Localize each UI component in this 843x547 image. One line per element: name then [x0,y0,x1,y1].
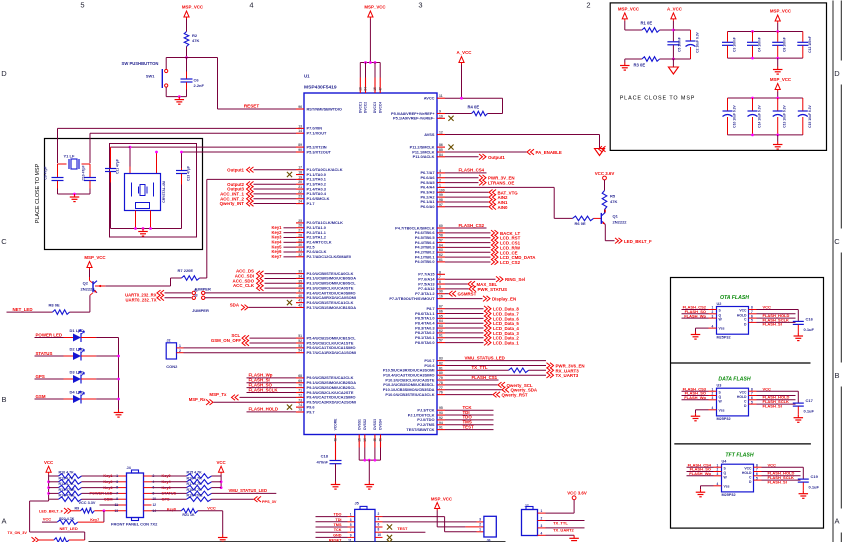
ground LEDs [118,410,120,413]
svg-text:1: 1 [541,509,543,513]
svg-text:DVCC2: DVCC2 [364,102,368,113]
svg-text:J5: J5 [355,502,359,506]
svg-text:R14 470E: R14 470E [59,494,76,498]
junction switch-cap-ground [178,95,181,98]
svg-text:4: 4 [712,324,714,328]
resistor R2 [184,32,189,47]
svg-text:C14 10uF 6.3V: C14 10uF 6.3V [758,105,762,128]
svg-text:R3 0E: R3 0E [634,62,646,67]
wire R2 to junction [186,47,188,58]
svg-text:45: 45 [373,438,377,442]
pin 65 P8.5/TA1.0 [437,317,445,319]
pin 81 P10.5/UCA3RXD/UCA3SOMI [437,369,445,371]
svg-text:47: 47 [378,87,382,91]
svg-text:70: 70 [298,384,302,388]
net GSMRST [445,293,449,295]
svg-text:52: 52 [298,339,302,343]
off-page arrow near box corner [599,146,606,152]
svg-text:LED_BKLT_F: LED_BKLT_F [39,510,64,514]
net Key0 R21 row [144,510,152,512]
power MSP_VCC decoupling left [622,13,627,19]
resistor R18 front panel [187,491,212,496]
svg-text:86: 86 [439,143,443,147]
pin 6 P7.5/A13 [437,283,445,285]
svg-text:MSP_VCC: MSP_VCC [770,77,792,82]
resistor R22 [57,520,78,525]
wire DVCC bus [360,62,380,64]
svg-text:28: 28 [298,233,302,237]
svg-text:72: 72 [298,393,302,397]
pin 54 P5.7/UCA1RXD/UCA1SOMI [296,352,304,354]
svg-text:2: 2 [586,1,590,10]
svg-text:97: 97 [439,203,443,207]
pin VCORE [335,435,337,461]
net Qwerty_RST [445,394,493,396]
svg-text:Key7: Key7 [271,254,282,259]
pin Vss U4 [714,485,722,487]
wire cap row 1 bottom rail [728,57,803,59]
pin 10 J5 [375,536,383,538]
wire pin1 to Q1 base [445,186,554,188]
svg-text:C8 100nF: C8 100nF [783,37,787,52]
svg-text:LCD_Data_1: LCD_Data_1 [493,341,519,346]
svg-text:R16 4.7K: R16 4.7K [187,476,203,480]
ground J7 [573,535,575,538]
net FLASH_SI U2 [749,321,757,323]
pin 74 P9.6 [296,406,304,408]
no-connect pin 10 [448,116,453,121]
svg-text:NET_LED: NET_LED [13,307,33,312]
svg-text:R10 4.7K: R10 4.7K [59,471,75,475]
net FLASH_HOLD U2 [749,313,757,315]
svg-text:R15 4.7K: R15 4.7K [187,471,203,475]
pin 11 AVCC [437,97,445,99]
pin 67 P8.7 [437,308,445,310]
svg-text:Qwerty_RST: Qwerty_RST [502,393,528,398]
net PPS_3V [212,498,254,500]
net LCD_Data_8 [445,308,484,310]
pin DVCC2 [365,63,367,78]
svg-text:6: 6 [439,280,441,284]
power VCC 3.6V Q1 [603,176,607,180]
svg-text:1: 1 [116,474,118,478]
net AVCC wire [445,97,503,99]
net Key4 front panel right [144,481,152,483]
svg-text:61: 61 [439,334,443,338]
pin 59 P4.6/TB0.6 [437,232,445,234]
power A_VCC decoupling [671,13,676,19]
pin Vss U3 [709,409,717,411]
no-connect J5 pin6 [387,524,392,529]
svg-text:4: 4 [717,482,719,486]
svg-text:P2.7/ADC12CLK/DMAE0: P2.7/ADC12CLK/DMAE0 [307,254,352,259]
capacitor C9 [57,164,59,177]
flash divider 1 [671,362,811,364]
analog ground A_VCC [672,59,674,67]
svg-text:57: 57 [439,339,443,343]
svg-text:73: 73 [298,398,302,402]
pin 57 P4.4/TB0.4 [437,242,445,244]
pin 8 J5 [375,531,383,533]
pin 63 P4.2/TB0.2 [437,251,445,253]
ground C18 [335,482,337,485]
svg-text:P5.3/XT2OUT: P5.3/XT2OUT [307,149,332,154]
svg-text:VCC: VCC [739,309,747,313]
pin Vss U2 [709,327,717,329]
svg-text:Q: Q [719,313,722,317]
svg-text:58: 58 [439,234,443,238]
svg-text:TFT FLASH: TFT FLASH [725,453,753,459]
svg-text:MSP_Tx: MSP_Tx [209,392,227,397]
svg-text:3: 3 [541,524,543,528]
svg-text:C: C [1,237,7,246]
svg-text:71: 71 [298,389,302,393]
wire J7 pin1 [538,512,546,514]
svg-text:30: 30 [298,243,302,247]
pin 97 P6.0/A0 [437,206,445,208]
svg-text:FLASH_SI: FLASH_SI [768,479,787,484]
svg-text:100: 100 [439,188,445,192]
flash block box [671,278,824,529]
svg-text:STATUS: STATUS [36,351,53,356]
wire XOUT [90,132,296,134]
wire RESET net [187,57,218,59]
xt2 inner box [110,144,197,238]
net LCD_Data_3 [445,332,484,334]
net AIN0 [445,206,489,208]
svg-text:2.2nF: 2.2nF [194,83,205,88]
pin 68 P9.0/UCB2STE/UCA2CLK [296,377,304,379]
svg-text:4: 4 [439,169,441,173]
pin 52 P5.5/UCB1CLK/UCA1STE [296,342,304,344]
svg-text:6: 6 [378,522,380,526]
pin 91 TEST/SBWTCK [437,429,445,431]
net PWR_3V6_EN [445,365,546,367]
svg-text:C10 10uF 6.3V: C10 10uF 6.3V [733,105,737,128]
svg-text:64: 64 [439,319,443,323]
svg-text:68: 68 [298,374,302,378]
svg-text:94: 94 [439,421,443,425]
svg-text:79: 79 [439,376,443,380]
svg-text:FLASH_CS1: FLASH_CS1 [472,375,498,380]
wire cap row 2 top rail [728,97,803,99]
pin DVCC3 [374,63,376,78]
svg-text:DVSS1: DVSS1 [357,419,361,430]
svg-text:SDA: SDA [230,302,240,307]
pin 17 P1.0/TA0CLK/ACLK [296,169,304,171]
svg-text:Q1: Q1 [613,214,619,219]
capacitor C3 100nF [727,32,729,42]
net TX_UART3 [445,374,546,376]
svg-text:R11 4.7K: R11 4.7K [59,476,74,480]
net RING_Sel [445,278,496,280]
wire NET_LED [7,311,53,313]
pin 18 P1.1/TA0.0 [296,174,304,176]
wire R8 to Q2 [70,311,90,313]
pin 27 P2.2/TA1.1 [296,232,304,234]
svg-text:MSP_VCC: MSP_VCC [431,496,453,501]
pin 16 P7.2/TB0OUTH/SVMOUT [437,298,445,300]
svg-text:NET_LED: NET_LED [60,526,78,531]
analog ground AVSS [595,149,605,156]
svg-text:85: 85 [439,148,443,152]
capacitor C5 [667,41,679,43]
svg-text:TX_UART3: TX_UART3 [556,373,579,378]
svg-text:B: B [1,395,6,404]
connector J6 [484,516,496,537]
wire xt2 ground bus [135,211,137,229]
svg-text:470nF: 470nF [316,459,328,464]
svg-text:TEST: TEST [397,526,408,531]
svg-text:R5: R5 [610,194,616,199]
pin DVCC1 [359,63,361,78]
resistor R10 front panel [49,475,59,477]
pin DVSS2 [364,435,366,448]
pin 4 P6.7/A7 [437,172,445,174]
svg-text:CON2: CON2 [166,364,178,369]
svg-text:1: 1 [439,183,441,187]
svg-text:JUMPER: JUMPER [194,287,211,292]
ground C19 [802,491,804,494]
svg-text:UART0_232_TX: UART0_232_TX [126,297,157,302]
svg-text:DATA FLASH: DATA FLASH [718,377,750,383]
svg-text:GND: GND [333,533,342,537]
wire switch bottom [165,87,167,97]
svg-text:9: 9 [350,533,352,537]
pin 75 P9.7 [296,411,304,413]
svg-text:TX_TTL: TX_TTL [553,520,568,525]
svg-text:18: 18 [359,87,363,91]
svg-text:11: 11 [348,539,352,542]
power MSP_VCC Q2 [87,262,92,268]
svg-text:9: 9 [439,110,441,114]
pin 32 P2.7/ADC12CLK/DMAE0 [296,256,304,258]
svg-text:R17 4.7K: R17 4.7K [187,482,203,486]
svg-text:1: 1 [179,344,181,348]
wire crystal caps ground [58,193,91,195]
svg-text:C5 100nF: C5 100nF [678,37,682,52]
power VCC front panel right [219,466,224,472]
net LCD_R/W [445,246,491,248]
resistor R4 [502,98,504,113]
svg-text:83: 83 [439,357,443,361]
svg-text:P8.0/TA0.0: P8.0/TA0.0 [415,340,434,345]
net BAT_VTG [445,191,489,193]
resistor R6 [573,216,594,221]
pin 12 AVSS [437,134,445,136]
svg-text:C17: C17 [806,398,814,403]
ground cap row 2 [777,142,779,145]
net PWR_STATUS [445,288,469,290]
pin 13 XIN [296,127,304,129]
resistor R11 front panel [49,481,59,483]
svg-text:MSP_VCC: MSP_VCC [618,7,640,12]
svg-text:VCC: VCC [216,460,226,465]
power MSP_VCC cap row 2 [775,84,780,90]
svg-text:C16: C16 [806,317,814,322]
svg-text:FLASH_Wp: FLASH_Wp [689,471,711,476]
svg-text:VMU_STATUS_LED: VMU_STATUS_LED [465,355,505,360]
svg-text:P3.7/UCB1SIMO/UCB1SDA: P3.7/UCB1SIMO/UCB1SDA [307,305,357,310]
svg-text:11: 11 [439,94,443,98]
svg-text:R8 0E: R8 0E [49,303,60,308]
svg-text:C2 10uF 6.3V: C2 10uF 6.3V [696,31,700,52]
pin 73 P9.5/UCA2RXD/UCA2SOMI [296,401,304,403]
net LCD_Data_5 [445,322,484,324]
svg-text:46: 46 [379,438,383,442]
wire XT2OUT [182,151,297,153]
ground DVSS [368,482,370,485]
svg-text:HOLD: HOLD [737,313,747,317]
net FLASH_HOLD U4 [754,471,762,473]
svg-text:Key7: Key7 [90,518,99,522]
svg-text:47K: 47K [610,199,617,204]
capacitor C12 100nF [802,32,804,42]
net LTRANS_OE [445,182,479,184]
svg-text:HOLD: HOLD [737,395,747,399]
pin 20 P1.3/TA0.2 [296,183,304,185]
svg-text:7: 7 [116,491,118,495]
pin 82 P10.6 [437,364,445,366]
svg-text:5: 5 [751,400,753,404]
svg-text:VCC 3.6V: VCC 3.6V [595,171,615,176]
svg-text:2: 2 [541,517,543,521]
svg-text:TDI: TDI [335,518,341,522]
svg-text:25: 25 [298,219,302,223]
svg-text:VCC: VCC [744,466,752,470]
resistor R12 front panel [49,487,59,489]
pin 25 P2.0/TA1CLK/MCLK [296,222,304,224]
pin 22 P1.5/TA0.4 [296,193,304,195]
pin DVCC4 [379,63,381,78]
net LCD_Data_6 [445,317,484,319]
no-connect J5 pin12 [387,539,392,544]
svg-text:Q: Q [719,395,722,399]
svg-text:Y1 LF: Y1 LF [64,154,75,159]
pin 77 P10.1/UCB3SIMO/UCB3SDA [437,389,445,391]
pin DVSS1 [358,435,360,448]
svg-text:16: 16 [363,438,367,442]
svg-text:92: 92 [439,416,443,420]
svg-text:0.1uF: 0.1uF [809,485,820,490]
svg-text:VCC: VCC [768,462,777,467]
svg-text:14: 14 [298,129,302,133]
net Qwerty_SCL [445,384,498,386]
pin 24 P1.7 [296,203,304,205]
pin 80 P10.4/UCA3TXD/UCA3SIMO [437,374,445,376]
svg-text:36: 36 [298,284,302,288]
svg-text:TDO: TDO [333,513,341,517]
svg-text:15: 15 [357,438,361,442]
svg-text:POWER LED: POWER LED [36,332,63,337]
svg-text:77: 77 [439,386,443,390]
net MAX_SEL [445,283,468,285]
svg-text:3: 3 [439,174,441,178]
capacitor C15 10uF [802,98,804,111]
pin 2 J5 [375,516,383,518]
net LCD_Data_7 [445,313,484,315]
pin 37 P3.4/UCA0TXD/UCA0SIMO [296,292,304,294]
net TX_UART2 J7 [538,527,546,529]
svg-text:FLASH_Wp: FLASH_Wp [684,313,706,318]
wire J5 pin4 to J6 pin3 [383,521,477,523]
capacitor C13 10uF [777,98,779,111]
pin 70 P9.2/UCB2SOMI/UCB2SCL [296,387,304,389]
wire J5 pin2 to J6 pin1 [383,516,445,518]
wire CON2 pin2 [177,352,184,354]
svg-text:LED_BKLT_F: LED_BKLT_F [624,239,652,244]
pin 92 PJ.0/TDO [437,419,445,421]
resistor R5 [602,191,607,210]
net VMU_STATUS_LED front panel [212,492,277,494]
svg-text:CRYSTAL-4M: CRYSTAL-4M [162,181,166,203]
svg-text:0: 0 [90,506,92,510]
net PA_ENABLE [445,151,527,153]
pin 26 P2.1/TA1.0 [296,227,304,229]
pin 40 P3.5/UCA0RXD/UCA0SOMI [296,297,304,299]
svg-text:5: 5 [439,285,441,289]
svg-text:4: 4 [712,406,714,410]
svg-text:R4 0E: R4 0E [468,105,480,110]
svg-text:ACC_CLK: ACC_CLK [233,283,255,288]
junction crystal ground [73,193,76,196]
svg-text:PLACE CLOSE TO MSP: PLACE CLOSE TO MSP [35,163,41,223]
svg-text:OTA FLASH: OTA FLASH [720,295,749,301]
svg-text:AVSS: AVSS [424,132,435,137]
ground reset circuit [178,97,180,100]
svg-text:D: D [834,69,840,78]
net STATUS front panel right [144,492,152,494]
net LCD_CS1 [445,242,491,244]
svg-text:A_VCC: A_VCC [667,7,683,12]
svg-text:4: 4 [541,531,543,535]
svg-text:8: 8 [439,270,441,274]
wire junction to switch [166,57,186,59]
net VCC U2 [749,309,757,311]
resistor R21 [181,509,198,514]
wire Q2 base [95,285,105,287]
resistor R7 [182,276,200,281]
svg-text:J2: J2 [167,339,171,343]
resistor R9 [81,509,95,514]
svg-text:61: 61 [439,258,443,262]
svg-text:63: 63 [439,248,443,252]
svg-text:89: 89 [298,143,302,147]
svg-text:VCC: VCC [43,517,52,522]
net VCC U4 [754,466,762,468]
net FLASH_SI U3 [749,403,757,405]
svg-text:R19 470E: R19 470E [187,494,204,498]
svg-text:FLASH_SI: FLASH_SI [763,322,782,327]
svg-text:LTRANS_OE: LTRANS_OE [488,181,514,186]
svg-text:P7.1/XOUT: P7.1/XOUT [307,131,328,136]
svg-text:15: 15 [373,87,377,91]
svg-text:MSP_VCC: MSP_VCC [770,9,792,14]
capacitor C10 [89,164,91,177]
svg-text:P10.0/UCB3STE/UCA3CLK: P10.0/UCB3STE/UCA3CLK [385,392,434,397]
svg-text:5: 5 [751,319,753,323]
pin 94 PJ.2/TMS [437,424,445,426]
svg-text:95: 95 [439,406,443,410]
resistor R13 front panel [49,492,59,494]
svg-text:26: 26 [298,224,302,228]
svg-text:R21 1K: R21 1K [182,513,195,517]
svg-text:M25P32: M25P32 [722,493,736,497]
svg-text:96: 96 [298,105,302,109]
svg-text:DVCC1: DVCC1 [359,102,363,113]
svg-text:7: 7 [350,528,352,532]
svg-text:Vss: Vss [719,327,725,331]
